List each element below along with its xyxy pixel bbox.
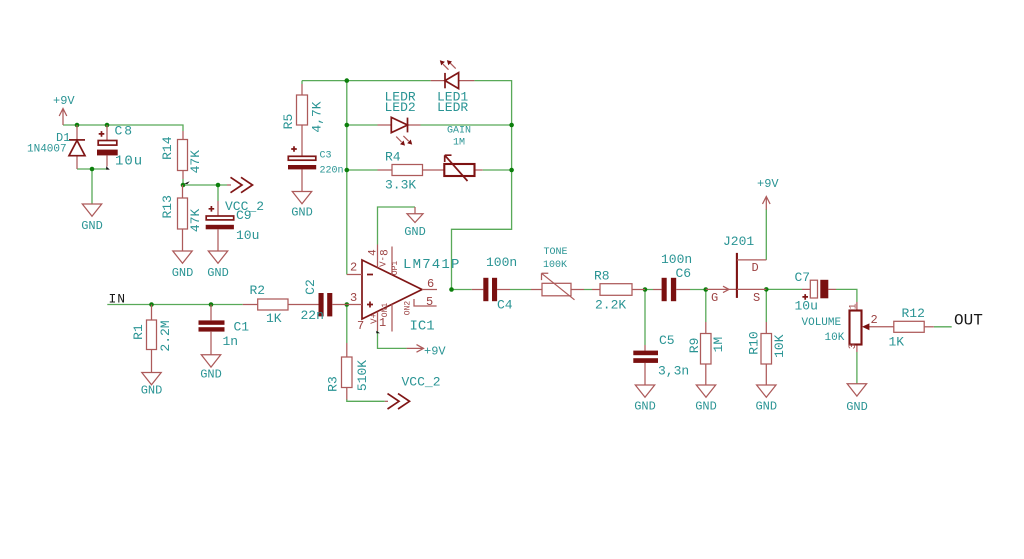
- svg-text:10K: 10K: [772, 334, 787, 358]
- svg-text:7: 7: [357, 319, 364, 333]
- svg-text:GND: GND: [172, 266, 194, 280]
- svg-text:10K: 10K: [825, 332, 845, 344]
- svg-text:100n: 100n: [486, 255, 517, 270]
- svg-text:G: G: [711, 291, 718, 305]
- svg-text:22n: 22n: [301, 308, 324, 323]
- svg-text:IN: IN: [109, 292, 127, 307]
- svg-text:TONE: TONE: [544, 247, 568, 258]
- svg-text:1K: 1K: [889, 335, 905, 350]
- svg-text:10u: 10u: [795, 299, 818, 314]
- svg-text:220n: 220n: [320, 166, 344, 177]
- svg-text:V+: V+: [370, 313, 380, 324]
- svg-text:GND: GND: [200, 368, 222, 382]
- svg-text:3: 3: [350, 291, 357, 305]
- svg-text:GND: GND: [755, 400, 777, 414]
- svg-text:C2: C2: [303, 279, 318, 295]
- svg-text:LEDR: LEDR: [437, 100, 468, 115]
- svg-text:1K: 1K: [266, 311, 282, 326]
- svg-text:R9: R9: [687, 338, 702, 354]
- svg-text:R8: R8: [594, 269, 610, 284]
- svg-text:47K: 47K: [188, 150, 203, 174]
- svg-text:6: 6: [427, 277, 434, 291]
- svg-text:C3: C3: [320, 151, 332, 162]
- svg-text:4,7K: 4,7K: [310, 101, 325, 132]
- svg-text:VCC_2: VCC_2: [402, 375, 441, 390]
- svg-text:GND: GND: [141, 384, 163, 398]
- svg-text:R4: R4: [385, 150, 401, 165]
- svg-text:ON1: ON1: [381, 303, 390, 318]
- svg-text:GND: GND: [695, 400, 717, 414]
- svg-text:LM741P: LM741P: [403, 257, 461, 273]
- svg-text:V-: V-: [379, 256, 389, 267]
- svg-text:C7: C7: [795, 270, 811, 285]
- svg-text:GND: GND: [291, 206, 313, 220]
- svg-text:R10: R10: [747, 331, 762, 354]
- svg-text:GND: GND: [81, 219, 103, 233]
- svg-text:C1: C1: [234, 320, 250, 335]
- svg-text:OP1: OP1: [391, 261, 400, 276]
- svg-text:R2: R2: [250, 283, 266, 298]
- svg-text:+9V: +9V: [53, 94, 75, 108]
- svg-text:R5: R5: [281, 114, 296, 130]
- svg-text:5: 5: [426, 295, 433, 309]
- svg-text:1: 1: [849, 303, 860, 309]
- svg-text:C4: C4: [497, 298, 513, 313]
- svg-text:GAIN: GAIN: [447, 126, 471, 137]
- svg-text:ON2: ON2: [404, 301, 413, 316]
- svg-text:2.2K: 2.2K: [595, 298, 626, 313]
- svg-text:2: 2: [871, 313, 878, 327]
- svg-text:4: 4: [368, 249, 380, 256]
- svg-text:100K: 100K: [543, 260, 567, 271]
- svg-text:C9: C9: [236, 208, 252, 223]
- svg-text:R12: R12: [902, 306, 925, 321]
- svg-text:1M: 1M: [453, 138, 465, 149]
- svg-text:+9V: +9V: [757, 177, 779, 191]
- svg-text:S: S: [753, 291, 760, 305]
- svg-text:1N4007: 1N4007: [27, 144, 67, 156]
- svg-text:3.3K: 3.3K: [385, 178, 416, 193]
- svg-text:3,3n: 3,3n: [658, 364, 689, 379]
- svg-text:R13: R13: [160, 195, 175, 218]
- svg-text:+9V: +9V: [424, 345, 446, 359]
- svg-text:1n: 1n: [223, 334, 239, 349]
- svg-text:LED2: LED2: [385, 100, 416, 115]
- svg-text:C6: C6: [676, 266, 692, 281]
- svg-text:IC1: IC1: [410, 319, 435, 335]
- svg-text:8: 8: [380, 249, 392, 256]
- svg-text:VOLUME: VOLUME: [802, 317, 842, 329]
- svg-text:2.2M: 2.2M: [158, 320, 173, 351]
- svg-text:3: 3: [848, 343, 859, 349]
- svg-text:GND: GND: [207, 266, 229, 280]
- svg-text:2: 2: [350, 261, 357, 275]
- svg-text:OUT: OUT: [954, 312, 983, 330]
- svg-text:J201: J201: [723, 234, 754, 249]
- svg-text:510K: 510K: [355, 360, 370, 391]
- svg-text:100n: 100n: [661, 252, 692, 267]
- svg-text:GND: GND: [634, 400, 656, 414]
- svg-text:R1: R1: [131, 324, 146, 340]
- svg-text:GND: GND: [846, 400, 868, 414]
- svg-text:GND: GND: [404, 225, 426, 239]
- svg-text:C8: C8: [115, 124, 135, 139]
- svg-text:1M: 1M: [711, 337, 726, 353]
- svg-text:R14: R14: [160, 136, 175, 160]
- svg-text:47K: 47K: [188, 209, 203, 233]
- svg-text:R3: R3: [326, 376, 341, 392]
- svg-text:10u: 10u: [236, 228, 259, 243]
- svg-text:10u: 10u: [115, 154, 143, 170]
- svg-text:D: D: [752, 261, 759, 275]
- svg-text:C5: C5: [659, 333, 675, 348]
